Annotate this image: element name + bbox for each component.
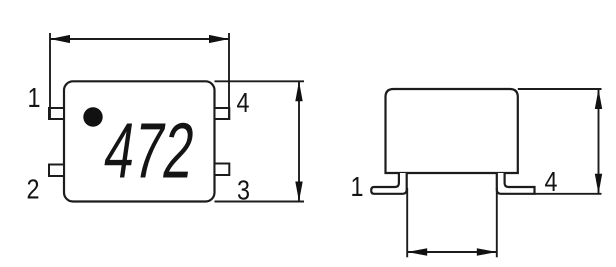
pin 4 pad [215,108,230,119]
lead 4 gull-wing (side view) [497,173,535,194]
pin 3 pad [215,164,230,176]
pin 2 pad [49,165,64,177]
height dimension extension line bottom (top view) [215,201,305,203]
svg-text:2: 2 [26,175,39,205]
width dimension arrow right [209,35,229,43]
seated height extension line bottom (side view) [535,193,602,195]
svg-text:472: 472 [99,108,200,195]
lead span arrow right (side view) [477,248,497,256]
width dimension extension line left [49,33,51,119]
package body U1 (top view) [64,81,215,201]
seated height arrow down (side view) [595,174,602,194]
lead span arrow left (side view) [407,248,427,256]
seated height extension line top (side view) [518,88,602,90]
width dimension arrow left [50,35,70,43]
lead span extension line left (side view) [406,188,408,257]
seated height arrow up (side view) [595,89,602,109]
lead span extension line right (side view) [496,188,498,257]
width dimension line [50,38,229,40]
width dimension extension line right [228,33,230,119]
pin 1 pad [49,108,64,119]
svg-text:1: 1 [27,83,40,113]
svg-text:4: 4 [236,88,249,118]
pin 1 index dot [83,107,102,126]
height dimension arrow down (top view) [295,182,302,202]
height dimension arrow up (top view) [295,81,302,101]
lead span dimension line (side view) [407,251,497,253]
svg-text:1: 1 [350,172,363,202]
seated height dimension line (side view) [598,89,600,194]
package body (side view) [386,89,518,173]
height dimension line (top view) [298,81,300,201]
lead 1 gull-wing (side view) [371,173,407,194]
height dimension extension line top (top view) [215,80,305,82]
